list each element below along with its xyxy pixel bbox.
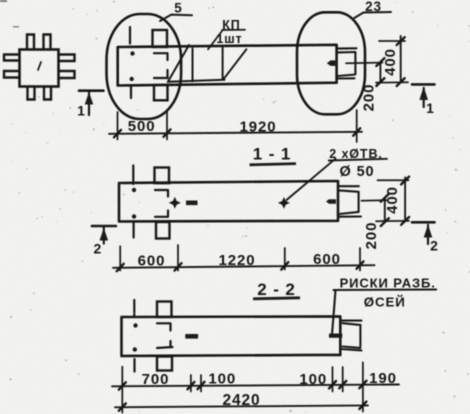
end tenon xyxy=(339,186,361,217)
dot 2 xyxy=(133,347,137,351)
axis above xyxy=(132,166,134,185)
right stub 2 xyxy=(59,71,75,78)
anchor mark right end xyxy=(327,60,338,66)
cut line bar xyxy=(412,221,435,224)
right dims of section 1-1 xyxy=(376,177,409,226)
KP plate parallelogram xyxy=(168,45,247,82)
hidden console dashes xyxy=(154,53,168,78)
tick xyxy=(198,382,205,389)
hidden console dashes xyxy=(155,190,168,217)
ticks 400 xyxy=(397,37,405,86)
dim 200 line xyxy=(379,62,381,82)
dim line 500/1920 xyxy=(109,132,362,134)
bottom stub 1 xyxy=(28,87,35,100)
weld mark xyxy=(186,201,198,206)
pen tick inside square xyxy=(38,62,41,70)
plan view (top figure) xyxy=(107,12,383,119)
arrow shaft xyxy=(103,228,105,244)
end tenon xyxy=(337,48,357,78)
tick xyxy=(357,261,364,268)
dot 2 xyxy=(132,214,136,218)
tick xyxy=(359,381,366,388)
right stub 1 xyxy=(59,55,75,62)
callout KP leader xyxy=(208,30,245,50)
middle dimension row xyxy=(113,245,375,271)
cut line bar xyxy=(412,83,435,86)
riska mark xyxy=(329,334,342,338)
dim line 2420 xyxy=(115,405,368,407)
ticks 400 xyxy=(401,177,409,225)
dim 400 line xyxy=(400,36,402,82)
detail circle 23 xyxy=(297,12,365,114)
top console xyxy=(153,30,168,47)
arrow head xyxy=(85,92,94,105)
tick xyxy=(175,263,182,270)
leader to hole note xyxy=(287,159,388,200)
axis below xyxy=(133,222,135,238)
end tenon xyxy=(341,321,362,351)
bottom console xyxy=(154,85,168,100)
tick xyxy=(114,130,121,137)
tick xyxy=(329,381,336,388)
left stub 2 xyxy=(4,71,19,78)
tick xyxy=(117,264,124,271)
note underline xyxy=(333,289,436,292)
section mark 1 left xyxy=(79,91,104,115)
dim line 700/100/100/190 xyxy=(112,385,399,387)
section 1-1 figure xyxy=(119,159,387,239)
dim 400 line xyxy=(404,177,406,221)
callout 5 xyxy=(160,15,192,21)
detail circle 5 xyxy=(107,14,182,119)
tick xyxy=(339,381,346,388)
extension lines 500/1920 xyxy=(118,110,357,142)
tick xyxy=(164,129,171,136)
bottom console xyxy=(157,357,172,371)
extension line bottom xyxy=(376,220,409,222)
anchor dot 1 xyxy=(130,51,134,55)
tick xyxy=(119,382,126,389)
hidden console dashes xyxy=(157,323,173,348)
section mark 1 right xyxy=(412,84,435,107)
axis above xyxy=(133,300,135,316)
leader from OSEY note xyxy=(332,290,336,335)
tick xyxy=(353,128,360,135)
tick xyxy=(119,403,126,410)
extension line top xyxy=(378,179,409,181)
callout 23 xyxy=(355,12,392,18)
extension lines 600/1220/600 xyxy=(120,245,360,271)
tick xyxy=(281,262,288,269)
top console xyxy=(155,168,170,184)
cut line bar xyxy=(92,225,116,228)
tick xyxy=(187,382,194,389)
top stub 1 xyxy=(27,35,34,50)
bottom stub 2 xyxy=(44,87,51,100)
left stub 1 xyxy=(4,55,19,61)
tick xyxy=(359,402,366,409)
dim line 600/1220/600 xyxy=(113,265,375,268)
weld mark xyxy=(185,334,198,339)
hole marker 1 xyxy=(169,197,181,209)
bottom console xyxy=(156,222,170,239)
axis tick below xyxy=(130,86,132,99)
arrow shaft xyxy=(88,92,90,115)
extension line bottom xyxy=(376,81,408,83)
arrow shaft xyxy=(427,225,429,244)
axis below xyxy=(133,359,135,372)
ticks 200 xyxy=(376,58,384,86)
dot 1 xyxy=(133,323,137,327)
top console xyxy=(157,302,172,318)
right dims of plan xyxy=(376,36,408,86)
top stub 2 xyxy=(44,35,51,50)
top dimension row xyxy=(109,110,362,142)
arrow head xyxy=(419,87,428,101)
axis tick above xyxy=(129,27,131,44)
beam outline xyxy=(118,45,337,86)
extension line top xyxy=(379,40,405,42)
ticks 200 xyxy=(381,194,389,226)
section 2-2 figure xyxy=(122,290,437,372)
column cross-section (top-left plan symbol) xyxy=(4,35,75,100)
center square xyxy=(20,50,59,87)
beam outline xyxy=(122,316,341,356)
centerline right xyxy=(362,199,387,202)
cut line bar xyxy=(79,89,104,92)
arrow shaft xyxy=(423,88,425,107)
beam outline xyxy=(119,181,338,222)
hole marker 2 xyxy=(278,197,290,209)
extension lines 700/100/100/190 xyxy=(122,362,363,412)
section mark 2 left xyxy=(92,226,116,244)
arrow head xyxy=(424,225,433,238)
section mark 2 right xyxy=(412,222,435,244)
dot 1 xyxy=(132,188,136,192)
bottom dimension rows xyxy=(112,362,399,412)
anchor mark right end xyxy=(326,199,336,204)
arrow head xyxy=(100,228,109,241)
dim 200 line xyxy=(384,198,386,223)
anchor dot 2 xyxy=(130,77,134,81)
centerline right xyxy=(346,62,383,65)
